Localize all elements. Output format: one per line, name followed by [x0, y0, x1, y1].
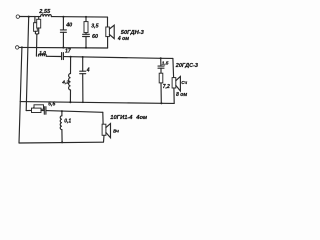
speaker BA1 woofer 50GDN-3	[106, 25, 114, 38]
node dot mid return / L4,2	[69, 101, 71, 103]
svg-text:4ом: 4ом	[135, 115, 148, 121]
inductor L 2,55	[41, 15, 52, 17]
wire tweeter branch right	[46, 111, 103, 113]
svg-text:4,2: 4,2	[61, 80, 69, 86]
capacitor C4 bottom lead	[82, 74, 84, 103]
svg-text:8 ом: 8 ом	[176, 92, 187, 98]
resistor R3,5 top lead	[85, 17, 87, 22]
wire from resistor pair down to mid branch corner	[35, 34, 37, 56]
svg-text:1,0: 1,0	[39, 50, 46, 56]
svg-text:10ГИ1-4: 10ГИ1-4	[110, 115, 133, 121]
wire mid return rail	[20, 102, 174, 104]
speaker BA2 mid 20GDS-3	[172, 76, 180, 91]
node dot mid return / C4	[82, 101, 84, 103]
node dot mid return / chain 1,5-7,2	[160, 102, 162, 104]
capacitor C1,5 top lead	[160, 58, 162, 66]
capacitor C4 plates	[80, 71, 86, 74]
wire bottom bus	[19, 141, 103, 144]
resistor R7,2 body	[159, 73, 163, 83]
resistor Rc (upper of 6,6 pair)	[34, 105, 44, 109]
capacitor C60 plates	[83, 34, 90, 36]
terminal T2 (- input)	[16, 46, 19, 49]
wire tweeter branch left	[26, 109, 31, 111]
node dot midline / C4	[82, 56, 84, 58]
node dot tweeter branch / L0,1	[61, 110, 63, 112]
wire Rd to C6,6	[41, 109, 44, 111]
terminal T1 (+ input)	[16, 15, 19, 18]
svg-text:4 ом: 4 ом	[117, 36, 129, 42]
wire tweeter bottom lead	[103, 135, 106, 142]
svg-text:Вч: Вч	[113, 129, 119, 134]
resistor Rb (right of parallel pair)	[37, 19, 41, 28]
wire midline to C17	[46, 55, 61, 57]
node dot midline / L4,2	[70, 56, 72, 58]
svg-text:0,1: 0,1	[64, 119, 71, 125]
speaker BA3 tweeter 10GI1-4	[102, 124, 110, 138]
inductor L4,2 coil	[69, 74, 71, 90]
inductor L0,1 bottom lead	[61, 130, 63, 143]
node dot bottom bus / L0,1	[61, 141, 63, 143]
capacitor C1,5 plates	[158, 66, 164, 68]
inductor L4,2 bottom lead	[69, 90, 71, 102]
svg-text:17: 17	[65, 48, 71, 54]
wire return rail	[19, 46, 108, 49]
resistor R7,2 bottom lead	[160, 83, 162, 103]
wire midline long segment	[64, 57, 173, 59]
wire R3,5 to C60	[85, 33, 87, 35]
svg-text:6,6: 6,6	[48, 102, 55, 108]
wire vertical 1 (minus bus down)	[19, 47, 22, 143]
wire vertical 2 (plus feed to tweeter branch)	[26, 17, 29, 111]
svg-text:4: 4	[86, 67, 90, 73]
wire top rail corner down to woofer	[107, 17, 109, 27]
wire C1,5 to R7,2	[160, 68, 162, 73]
wire mid speaker bottom lead	[173, 88, 175, 103]
resistor Rd (lower of 6,6 pair)	[32, 108, 42, 112]
svg-text:7,2: 7,2	[163, 84, 170, 90]
svg-text:1,5: 1,5	[162, 60, 169, 66]
node dot return rail / vertical 1	[21, 46, 23, 48]
inductor L0,1 coil	[60, 116, 62, 130]
inductor L0,1 top lead	[61, 111, 63, 116]
capacitor C4 top lead	[82, 57, 84, 71]
node dot top rail / C40	[62, 16, 64, 18]
wire resistor pair bottom leads merge	[35, 28, 38, 34]
node dot top rail / vertical 2	[28, 16, 30, 18]
node dot return rail / C60	[85, 47, 87, 49]
wire Rc stubs	[33, 107, 45, 110]
svg-text:60: 60	[92, 34, 98, 40]
wire woofer bottom lead	[107, 37, 109, 48]
capacitor C40 plates	[60, 30, 66, 32]
resistor R3,5 body	[84, 22, 88, 33]
inductor L 1,0	[38, 54, 46, 56]
capacitor C60 bottom lead	[85, 37, 87, 48]
wire tweeter top lead	[102, 112, 104, 124]
capacitor C40 top lead	[62, 17, 64, 30]
svg-text:40: 40	[65, 22, 72, 28]
resistor Ra (left of parallel pair)	[34, 23, 38, 32]
svg-text:2,55: 2,55	[38, 9, 51, 15]
wire midline corner down to mid speaker	[172, 58, 175, 77]
wire resistor pair top leads	[35, 17, 39, 23]
wire top rail left segment	[20, 16, 41, 18]
svg-text:3,5: 3,5	[91, 23, 98, 29]
node dot midline / chain 1,5-7,2	[160, 57, 162, 59]
capacitor C6,6 plates	[44, 107, 46, 115]
node dot top rail / R3,5	[85, 16, 87, 18]
capacitor C40 bottom lead	[62, 32, 64, 47]
inductor L4,2 top lead	[70, 57, 72, 74]
svg-text:Сч: Сч	[181, 80, 187, 85]
node dot return rail / C40	[62, 47, 64, 49]
svg-text:20ГДС-3: 20ГДС-3	[175, 63, 198, 69]
capacitor C17 plates	[62, 53, 64, 60]
wire top rail right segment	[51, 16, 107, 19]
